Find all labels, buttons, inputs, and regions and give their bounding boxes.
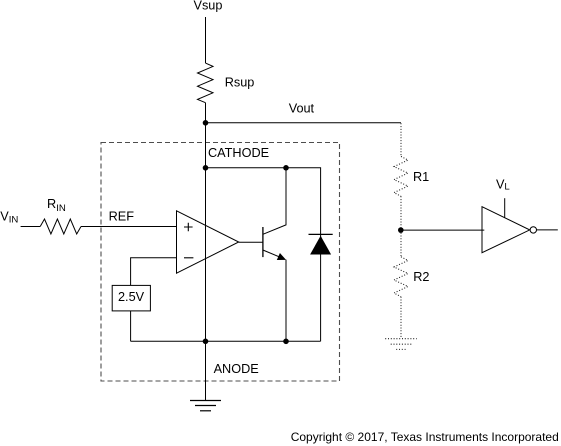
svg-text:L: L (504, 182, 510, 193)
svg-text:R2: R2 (413, 270, 429, 284)
svg-text:ANODE: ANODE (214, 362, 259, 376)
svg-text:CATHODE: CATHODE (208, 146, 269, 160)
svg-text:Vsup: Vsup (194, 0, 223, 12)
svg-text:IN: IN (9, 215, 19, 226)
svg-text:Vout: Vout (289, 101, 315, 115)
svg-text:2.5V: 2.5V (118, 290, 145, 304)
svg-text:R1: R1 (413, 170, 429, 184)
svg-text:Rsup: Rsup (225, 75, 255, 89)
svg-text:Copyright © 2017, Texas Instru: Copyright © 2017, Texas Instruments Inco… (291, 430, 559, 444)
svg-text:R: R (47, 197, 56, 211)
svg-text:REF: REF (109, 209, 135, 223)
svg-text:IN: IN (56, 203, 66, 214)
